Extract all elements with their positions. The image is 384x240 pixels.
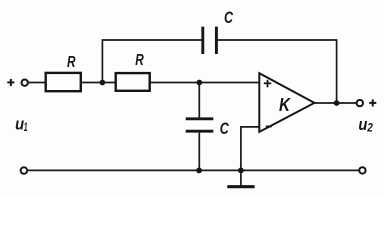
output terminal circle (u2 +) [357, 100, 363, 106]
ground [227, 185, 254, 188]
bottom-left terminal circle [21, 167, 28, 174]
op-amp plus input marker [264, 80, 271, 88]
output plus sign [369, 99, 376, 106]
junction dot: ground stem at bottom rail [238, 168, 244, 174]
bottom-right terminal circle [359, 167, 365, 173]
svg-text:C: C [220, 119, 230, 138]
wire: op-amp minus input horizontal [241, 126, 259, 128]
wire: top feedback right segment [218, 39, 338, 41]
wire: minus input down through rail to ground [240, 126, 242, 186]
node B junction dot [196, 80, 202, 86]
resistor R2 (value R) [116, 73, 150, 91]
wire: bottom rail [28, 169, 359, 171]
svg-text:1: 1 [24, 120, 28, 134]
output node junction dot [334, 100, 340, 106]
wire: node B down to capacitor C2 top plate [198, 83, 200, 118]
wire: R2 to op-amp + input through node B [150, 82, 260, 84]
wire: capacitor C2 bottom plate down to bottom rail [198, 133, 200, 171]
wire: top feedback left segment [102, 39, 202, 41]
wire: left feedback vertical at node A [101, 40, 103, 83]
capacitor C1 (top feedback, value C) [203, 27, 217, 54]
op-amp minus input marker [266, 126, 272, 128]
svg-text:R: R [135, 52, 144, 69]
wire: input terminal to R1 [28, 82, 45, 84]
node A junction dot [100, 80, 106, 86]
svg-text:C: C [224, 8, 234, 27]
svg-text:R: R [67, 54, 76, 71]
op-amp U1 (gain block K) [259, 73, 314, 132]
capacitor C2 (shunt to ground, value C) [186, 119, 214, 131]
wire: R1 to R2 through node A [81, 82, 116, 84]
junction dot: C2 at bottom rail [196, 168, 202, 174]
input plus sign [7, 79, 14, 86]
input terminal circle (u1 +) [22, 80, 28, 86]
wire: right feedback vertical to output node [336, 40, 338, 103]
svg-text:2: 2 [366, 120, 373, 134]
svg-text:u: u [358, 116, 367, 134]
wire: op-amp output to terminal [314, 102, 357, 104]
resistor R1 (value R) [46, 73, 81, 91]
svg-text:K: K [279, 95, 292, 115]
